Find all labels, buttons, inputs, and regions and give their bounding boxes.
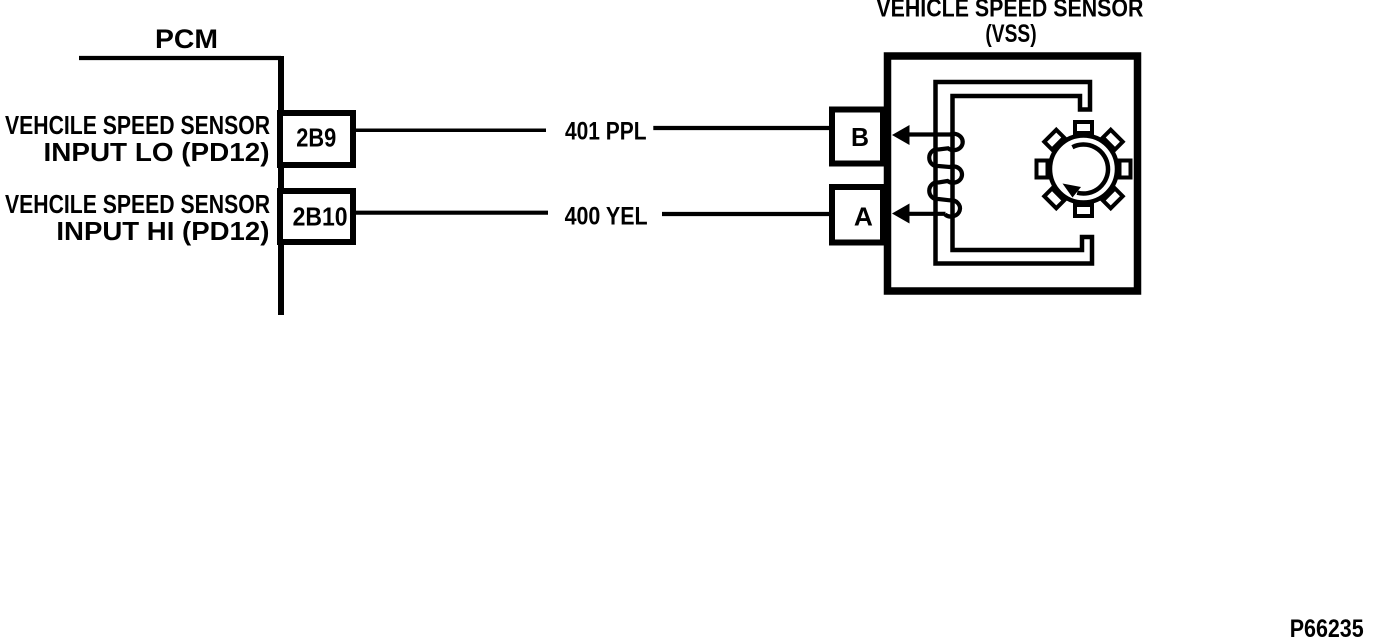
terminal A box xyxy=(832,187,883,243)
svg-text:2B10: 2B10 xyxy=(293,201,348,231)
svg-text:401 PPL: 401 PPL xyxy=(565,118,647,146)
svg-text:INPUT HI (PD12): INPUT HI (PD12) xyxy=(56,216,269,246)
svg-text:PCM: PCM xyxy=(155,24,218,54)
wire 401 PPL right segment xyxy=(653,126,829,130)
PCM boundary vertical line xyxy=(278,56,284,315)
rotation direction arc xyxy=(1072,145,1108,194)
coil lead to terminal A xyxy=(908,212,946,216)
pickup coil core (C-shape) xyxy=(936,82,1093,264)
svg-text:P66235: P66235 xyxy=(1290,615,1364,638)
PCM boundary top line xyxy=(79,56,281,60)
arrow into terminal B xyxy=(892,125,910,145)
svg-text:VEHCILE SPEED SENSOR: VEHCILE SPEED SENSOR xyxy=(5,189,270,219)
svg-text:B: B xyxy=(851,122,869,152)
wire 400 YEL left segment xyxy=(356,211,548,215)
wire 400 YEL right segment xyxy=(662,212,829,216)
VSS outer box xyxy=(888,56,1138,291)
svg-text:2B9: 2B9 xyxy=(296,122,336,152)
terminal B box xyxy=(832,110,883,164)
svg-text:A: A xyxy=(854,201,873,231)
rotation direction arrowhead xyxy=(1063,184,1082,198)
svg-text:INPUT LO (PD12): INPUT LO (PD12) xyxy=(44,137,270,167)
arrow into terminal A xyxy=(892,204,910,224)
svg-text:400 YEL: 400 YEL xyxy=(565,203,648,231)
svg-text:(VSS): (VSS) xyxy=(985,20,1036,48)
reluctor wheel teeth xyxy=(1037,122,1131,216)
svg-text:VEHCILE SPEED SENSOR: VEHCILE SPEED SENSOR xyxy=(5,110,270,140)
reluctor wheel outer circle xyxy=(1050,136,1117,203)
connector pin 2B9 box xyxy=(280,113,353,165)
connector pin 2B10 box xyxy=(280,191,353,242)
wire 401 PPL left segment xyxy=(356,129,546,133)
coil winding with lead to terminal B xyxy=(908,134,963,217)
